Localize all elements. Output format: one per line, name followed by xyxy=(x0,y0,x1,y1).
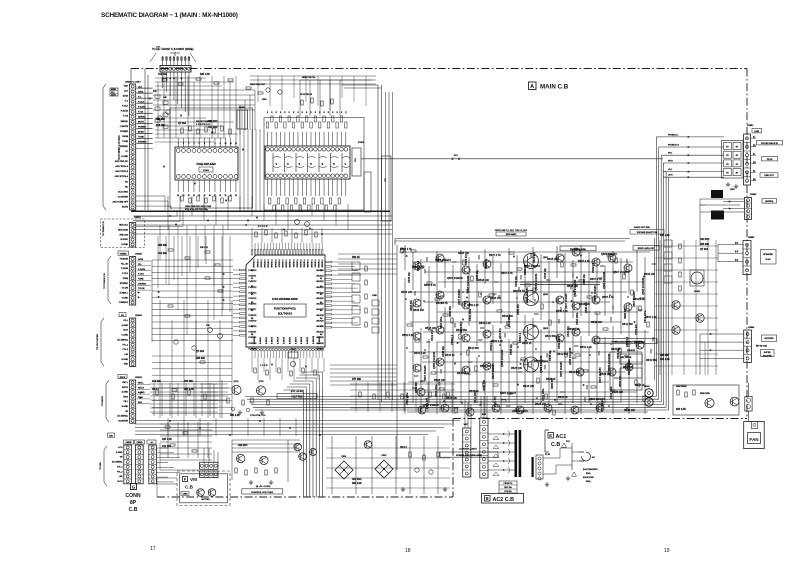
svg-text:P-SEG59: P-SEG59 xyxy=(321,260,323,268)
amp right boundary xyxy=(654,238,656,380)
svg-text:C521 47p: C521 47p xyxy=(465,254,468,265)
svg-text:CONTROL VOLT REG: CONTROL VOLT REG xyxy=(251,492,273,494)
svg-text:P-SEG44: P-SEG44 xyxy=(267,260,269,268)
svg-text:L/O-SERIAL: L/O-SERIAL xyxy=(117,415,129,418)
svg-text:FU2 16A: FU2 16A xyxy=(504,490,512,493)
svg-text:(25W AMP): (25W AMP) xyxy=(506,233,517,236)
components right of CONN strips xyxy=(165,426,170,428)
dashed box tuner gray xyxy=(101,219,145,248)
svg-text:R65 33K: R65 33K xyxy=(156,119,165,121)
svg-text:R518 100: R518 100 xyxy=(490,297,501,300)
transistor Q705 xyxy=(237,454,245,462)
AC2 fuse symbols xyxy=(496,436,499,440)
transistor Q706 xyxy=(260,456,268,464)
svg-text:D507 1SS133: D507 1SS133 xyxy=(424,365,427,381)
IC602 top pins xyxy=(266,148,270,152)
svg-text:R541 560: R541 560 xyxy=(634,341,645,344)
wires CN901 up xyxy=(464,400,466,428)
components below IC601 xyxy=(181,196,183,201)
svg-text:2SD2012: 2SD2012 xyxy=(627,350,635,352)
svg-text:18: 18 xyxy=(405,548,411,554)
wire cn607 feed xyxy=(174,52,176,56)
svg-text:+VE: +VE xyxy=(119,476,124,478)
svg-text:Q505 2SC2240: Q505 2SC2240 xyxy=(642,277,645,295)
svg-text:TUNER: TUNER xyxy=(120,253,127,255)
svg-text:R515 1K: R515 1K xyxy=(445,354,455,357)
bridge rectifier D902 xyxy=(375,460,393,478)
connector CN601 strip xyxy=(130,84,136,210)
transistor QA21 xyxy=(556,334,564,342)
svg-text:C521 47p: C521 47p xyxy=(533,252,536,263)
svg-text:FAN DRIVE: FAN DRIVE xyxy=(676,385,687,388)
svg-text:P-SEG47: P-SEG47 xyxy=(277,260,279,268)
lower mid wires xyxy=(350,383,455,385)
svg-text:AC2 C.B: AC2 C.B xyxy=(493,497,515,503)
svg-text:(SPKRS): (SPKRS) xyxy=(765,201,773,203)
transistor QA27 xyxy=(624,303,632,311)
svg-text:C P66 P12 D L2: C P66 P12 D L2 xyxy=(196,124,211,126)
label overload detector xyxy=(595,339,657,344)
amp area arrowheads xyxy=(406,255,408,257)
transistor QA19 xyxy=(556,296,564,304)
svg-text:C9 0.1: C9 0.1 xyxy=(152,389,159,391)
bus horizontal group to right xyxy=(245,396,656,398)
svg-text:P-KEY10: P-KEY10 xyxy=(249,270,257,272)
svg-text:Q507 2SA970: Q507 2SA970 xyxy=(601,253,617,256)
svg-text:C533 10p: C533 10p xyxy=(549,350,552,361)
svg-text:Q7 2SA: Q7 2SA xyxy=(196,350,205,353)
connector CN604 strip xyxy=(130,318,136,367)
transistor QA23 xyxy=(592,258,600,266)
svg-text:D507 1SS133: D507 1SS133 xyxy=(565,293,568,309)
svg-text:SEC 10A: SEC 10A xyxy=(504,486,512,489)
transistor Q707 xyxy=(294,443,302,451)
IC601 bottom pins xyxy=(176,175,180,179)
svg-text:R31 2.2K: R31 2.2K xyxy=(660,359,670,361)
svg-text:C509 0.1: C509 0.1 xyxy=(417,260,420,271)
gnd relay block xyxy=(727,182,729,184)
label MAIN mini table xyxy=(110,88,118,96)
svg-text:FTL-1: FTL-1 xyxy=(123,344,129,346)
svg-text:C852: C852 xyxy=(730,189,735,191)
svg-text:7: 7 xyxy=(209,143,210,145)
svg-text:R507 4.7K: R507 4.7K xyxy=(602,296,614,299)
svg-text:RED-SIG: RED-SIG xyxy=(120,234,129,236)
svg-text:P-SEG50: P-SEG50 xyxy=(288,260,290,268)
svg-text:NC: NC xyxy=(125,181,129,183)
svg-text:WOOFER: WOOFER xyxy=(763,355,773,357)
IC602 body xyxy=(265,146,350,179)
wires top area xyxy=(153,89,255,91)
svg-text:Q505 2SC2240: Q505 2SC2240 xyxy=(501,349,504,367)
svg-text:CONN: CONN xyxy=(125,493,141,499)
svg-text:R518 100: R518 100 xyxy=(401,291,412,294)
svg-text:C533 10p: C533 10p xyxy=(408,272,411,283)
svg-text:O22 2SC: O22 2SC xyxy=(208,127,218,129)
svg-text:P-KEY18: P-KEY18 xyxy=(249,315,257,317)
svg-text:C533 10p: C533 10p xyxy=(476,270,479,281)
svg-text:CD-R: CD-R xyxy=(123,330,129,332)
svg-text:R507 4.7K: R507 4.7K xyxy=(424,284,436,287)
svg-text:R518 100: R518 100 xyxy=(478,279,489,282)
fan drive components xyxy=(677,390,679,395)
svg-text:R507 4.7K: R507 4.7K xyxy=(578,260,590,263)
svg-text:P-KEY16: P-KEY16 xyxy=(249,304,257,306)
right mid components xyxy=(664,240,672,247)
svg-text:D507 1SS133: D507 1SS133 xyxy=(526,287,529,303)
svg-text:C512 100u: C512 100u xyxy=(435,384,438,397)
svg-text:FRONT C.B CN607 (WIRE): FRONT C.B CN607 (WIRE) xyxy=(162,47,194,51)
label CN609 CN610 headers xyxy=(124,440,134,444)
svg-text:4: 4 xyxy=(193,143,194,145)
svg-text:R515 1K: R515 1K xyxy=(522,342,532,345)
wires right of IC301 xyxy=(338,261,352,263)
svg-text:AIN-K20: AIN-K20 xyxy=(316,269,323,272)
svg-text:Q505 2SC2240: Q505 2SC2240 xyxy=(535,273,538,291)
components right2 of IC301 xyxy=(372,300,379,306)
svg-text:R518 100: R518 100 xyxy=(579,303,590,306)
svg-text:C509 0.1: C509 0.1 xyxy=(519,332,522,343)
svg-text:C.B: C.B xyxy=(185,485,194,490)
svg-text:R541 560: R541 560 xyxy=(456,329,467,332)
svg-text:16: 16 xyxy=(219,195,221,197)
svg-text:RED-DATA: RED-DATA xyxy=(118,228,129,231)
transistor QA33 xyxy=(418,406,426,414)
svg-text:(FTL +13.5V): (FTL +13.5V) xyxy=(291,391,304,393)
transistor QA29 xyxy=(625,363,633,371)
svg-text:R18 100: R18 100 xyxy=(156,125,165,127)
svg-text:AIN-K22: AIN-K22 xyxy=(316,280,323,283)
transistor QA40 xyxy=(596,404,604,412)
svg-text:P-CE: P-CE xyxy=(123,116,129,118)
svg-text:22: 22 xyxy=(188,195,190,197)
svg-text:P-KEY14: P-KEY14 xyxy=(249,292,257,294)
transistor QA4 xyxy=(413,364,421,372)
svg-text:CN621: CN621 xyxy=(134,217,142,219)
transistor QA31 xyxy=(608,368,616,376)
amp area vertical wires xyxy=(404,245,406,270)
svg-text:R523 10K: R523 10K xyxy=(458,252,469,255)
left area arrowheads xyxy=(149,98,151,100)
transistor QA17 xyxy=(556,254,564,262)
svg-text:(R): (R) xyxy=(753,162,756,164)
svg-text:(R): (R) xyxy=(753,145,756,147)
bus line heavy xyxy=(131,210,390,212)
wires amp to speakers xyxy=(699,199,701,246)
svg-text:JA501: JA501 xyxy=(644,385,651,388)
svg-text:C533 10p: C533 10p xyxy=(617,348,620,359)
svg-text:COUNTER: COUNTER xyxy=(118,196,129,198)
svg-text:A-GND: A-GND xyxy=(122,391,129,394)
svg-text:PLL-VD: PLL-VD xyxy=(121,263,129,265)
svg-text:R507 4.7K: R507 4.7K xyxy=(400,248,412,251)
svg-text:R31 2.2K: R31 2.2K xyxy=(352,483,362,485)
bus vertical group top bend xyxy=(302,389,304,391)
CN602 arrows xyxy=(140,392,142,394)
svg-text:C533 10p: C533 10p xyxy=(544,268,547,279)
svg-text:A: A xyxy=(530,84,534,90)
svg-text:P-KEY12: P-KEY12 xyxy=(249,281,257,283)
connector CN853 xyxy=(743,241,751,275)
svg-text:AKO RUBB OFF: AKO RUBB OFF xyxy=(113,200,129,203)
svg-text:Q507 2SA970: Q507 2SA970 xyxy=(613,271,629,274)
svg-text:24: 24 xyxy=(177,195,179,197)
amp area grounds xyxy=(402,251,407,253)
CN605 arrows xyxy=(138,291,140,293)
svg-text:CN30: CN30 xyxy=(183,494,188,496)
svg-text:R 6Ω: R 6Ω xyxy=(766,259,771,261)
svg-text:P-CLK: P-CLK xyxy=(122,106,129,108)
svg-text:Q507 2SA970: Q507 2SA970 xyxy=(423,404,439,407)
transistor QA38 xyxy=(544,404,552,412)
svg-text:R565 33K: R565 33K xyxy=(415,382,418,393)
AC2 winding wires xyxy=(488,433,515,435)
svg-text:R531 2.2K: R531 2.2K xyxy=(467,304,479,307)
narrow box right of IC602 xyxy=(382,156,392,221)
svg-text:C509 0.1: C509 0.1 xyxy=(558,338,561,349)
svg-text:C533 10p: C533 10p xyxy=(583,274,586,285)
IC602 circuit box xyxy=(264,118,364,211)
svg-text:R858 C858: R858 C858 xyxy=(700,393,710,395)
transistor QA10 xyxy=(462,301,470,309)
transistor QA24 xyxy=(592,296,600,304)
connector CN611 strip xyxy=(149,445,157,484)
svg-text:L-CH: L-CH xyxy=(118,447,123,449)
wires top-left mesh xyxy=(155,77,206,79)
label B AC2 C.B xyxy=(482,494,524,504)
svg-text:+VE: +VE xyxy=(124,354,129,356)
svg-text:P-SEG49: P-SEG49 xyxy=(285,260,287,268)
transistor Q708 xyxy=(299,453,307,461)
svg-text:P-SEG51: P-SEG51 xyxy=(292,260,294,268)
wire cn607 to strips xyxy=(130,69,132,85)
svg-text:AC1: AC1 xyxy=(556,434,567,440)
connector CN901 strip xyxy=(463,428,471,477)
svg-text:D-GND: D-GND xyxy=(121,359,128,361)
transistor QA11 xyxy=(462,334,470,342)
label SUPER WOOFER xyxy=(761,350,775,357)
svg-text:SUPER: SUPER xyxy=(764,352,771,354)
svg-text:C521 47p: C521 47p xyxy=(494,396,497,407)
wire fan xyxy=(747,411,749,422)
label E AC1 C.B xyxy=(544,430,546,452)
wires to CN853 xyxy=(718,244,743,246)
svg-text:R515 1K: R515 1K xyxy=(558,396,568,399)
connector CN621 strip xyxy=(130,223,136,248)
components below IC301 xyxy=(254,368,256,373)
connector CN towards VM 2 xyxy=(200,471,218,478)
svg-text:TO TUNER C.B: TO TUNER C.B xyxy=(103,221,105,236)
IC602 top resistor row xyxy=(266,122,268,128)
wire double feedback xyxy=(520,281,600,283)
svg-text:R515 1K: R515 1K xyxy=(457,372,467,375)
wires above IC602 xyxy=(299,80,301,116)
svg-text:P-SEG46: P-SEG46 xyxy=(274,260,276,268)
svg-text:R507 4.7K: R507 4.7K xyxy=(501,272,513,275)
svg-text:(B +5V +13.5V): (B +5V +13.5V) xyxy=(256,486,271,488)
transistor QA22 xyxy=(572,328,580,336)
svg-text:R531 2.2K: R531 2.2K xyxy=(645,316,657,319)
wires strip to IC301 xyxy=(152,259,233,261)
label WOOFER xyxy=(762,335,777,342)
svg-text:C509 0.1: C509 0.1 xyxy=(451,334,454,345)
svg-text:50Hz: 50Hz xyxy=(586,473,591,475)
svg-text:R541 560: R541 560 xyxy=(480,365,491,368)
svg-text:REL DRIVE: REL DRIVE xyxy=(621,357,633,359)
svg-text:P-KEY11: P-KEY11 xyxy=(249,276,257,278)
svg-text:C12 10u: C12 10u xyxy=(152,381,161,383)
svg-text:R4T 4.7K: R4T 4.7K xyxy=(184,388,194,391)
svg-text:Q7 2SA: Q7 2SA xyxy=(178,122,187,125)
top area components xyxy=(246,87,251,89)
svg-text:VDD: VDD xyxy=(124,364,129,366)
wire bundle x385-393 xyxy=(385,92,387,400)
svg-text:R523 10K: R523 10K xyxy=(535,403,546,406)
bracket TO TUNER C.B xyxy=(108,256,111,260)
AC2 table xyxy=(499,481,517,493)
svg-text:IC301 M34300M4-608SP: IC301 M34300M4-608SP xyxy=(272,299,298,301)
svg-text:R4T 4.7K: R4T 4.7K xyxy=(162,438,172,441)
svg-text:AIN-K29: AIN-K29 xyxy=(316,319,323,322)
svg-text:NOTE CN6 7.1, 21.5, 7.5K 7.9,: NOTE CN6 7.1, 21.5, 7.5K 7.9, 27A xyxy=(495,229,527,232)
svg-text:VDD: VDD xyxy=(124,86,129,88)
svg-text:PB RECU L: PB RECU L xyxy=(668,134,679,136)
svg-text:TO DIN: TO DIN xyxy=(100,462,102,470)
cluster left of IC601 xyxy=(155,95,160,98)
headphone jack xyxy=(645,389,653,397)
svg-text:C521 47p: C521 47p xyxy=(499,328,502,339)
bridge rectifier D901 xyxy=(335,461,353,479)
svg-text:3: 3 xyxy=(188,143,189,145)
svg-text:C12 10u: C12 10u xyxy=(158,74,167,76)
transistor Q554 xyxy=(524,357,539,372)
svg-text:R541 560: R541 560 xyxy=(545,335,556,338)
svg-text:P-KEY17: P-KEY17 xyxy=(249,309,257,311)
transistor QA35 xyxy=(466,408,474,416)
IC601 circuit box xyxy=(170,108,253,208)
label SPEAKERS xyxy=(762,199,777,204)
svg-text:NC: NC xyxy=(125,186,129,188)
svg-text:R531 2.2K: R531 2.2K xyxy=(580,346,592,349)
svg-text:C712: C712 xyxy=(420,381,425,383)
svg-text:RY501: RY501 xyxy=(694,291,701,293)
wires control reg xyxy=(232,439,300,441)
svg-text:C533 10p: C533 10p xyxy=(515,276,518,287)
svg-text:2: 2 xyxy=(183,143,184,145)
transistor QA34 xyxy=(441,404,449,412)
svg-text:O22 2SC: O22 2SC xyxy=(700,239,710,241)
svg-text:A-GND: A-GND xyxy=(122,324,129,327)
transistor QA25 xyxy=(608,254,616,262)
connector CN towards VM 1 xyxy=(200,462,218,469)
svg-text:POWER AMP (25W+25W): POWER AMP (25W+25W) xyxy=(456,454,482,457)
CN851 pin wires xyxy=(751,137,757,139)
svg-text:D507 1SS133: D507 1SS133 xyxy=(458,289,461,305)
IC301 top pins xyxy=(251,250,253,256)
resistor array RA601 xyxy=(237,110,248,129)
label PB RECU/AUX IN xyxy=(757,141,783,145)
svg-text:R515 1K: R515 1K xyxy=(635,384,645,387)
wires between ICs xyxy=(239,129,241,211)
svg-text:P-SEG48: P-SEG48 xyxy=(281,260,283,268)
svg-text:RET-R: RET-R xyxy=(122,387,129,389)
svg-text:MAIN C.B: MAIN C.B xyxy=(540,84,569,91)
svg-text:AIN-K24: AIN-K24 xyxy=(316,291,323,294)
svg-text:(L1): (L1) xyxy=(735,251,739,253)
transistor QA9 xyxy=(462,266,470,274)
connector CN605 strip xyxy=(130,257,136,306)
svg-text:RED-CLK: RED-CLK xyxy=(119,225,128,227)
svg-text:11: 11 xyxy=(230,143,232,145)
svg-text:P-CLK: P-CLK xyxy=(122,273,129,275)
svg-text:CN602: CN602 xyxy=(135,377,143,379)
label phones xyxy=(560,246,596,251)
main C.B boundary top xyxy=(131,68,747,70)
svg-text:P-SEG41: P-SEG41 xyxy=(256,260,258,268)
transistor QA7 xyxy=(436,326,444,334)
svg-text:AC: AC xyxy=(592,456,595,459)
transistor Q701 xyxy=(232,385,241,394)
bus vertical group to AC area xyxy=(302,390,304,497)
svg-text:C509 0.1: C509 0.1 xyxy=(490,340,493,351)
svg-text:DATA: DATA xyxy=(123,95,129,98)
right mid wires xyxy=(655,245,718,247)
transistor QA15 xyxy=(483,330,491,338)
svg-text:TO B FRONT C.B CN13: TO B FRONT C.B CN13 xyxy=(119,135,121,161)
svg-text:BRN: BRN xyxy=(482,414,487,416)
transistor QA26 xyxy=(624,264,632,272)
svg-text:8: 8 xyxy=(214,143,215,145)
svg-text:R518 100: R518 100 xyxy=(425,327,436,330)
IC602 bottom pins xyxy=(266,174,270,178)
svg-text:R507 4.7K: R507 4.7K xyxy=(590,278,602,281)
svg-text:AIN-K26: AIN-K26 xyxy=(316,303,323,306)
components right of IC301 xyxy=(352,262,360,270)
svg-text:C521 47p: C521 47p xyxy=(601,400,604,411)
svg-text:LCH/ RCH +-28.5V: LCH/ RCH +-28.5V xyxy=(459,449,477,451)
transistor Q851 xyxy=(705,398,714,407)
wires mid-left lower horizontals xyxy=(152,355,232,357)
cluster above IC601 xyxy=(181,128,183,133)
svg-text:WOOFER: WOOFER xyxy=(765,338,775,340)
svg-text:10: 10 xyxy=(224,143,226,145)
svg-text:RET-L: RET-L xyxy=(122,382,129,384)
svg-text:CN853: CN853 xyxy=(748,237,755,239)
svg-text:R565 33K: R565 33K xyxy=(483,380,486,391)
transistor QA16 xyxy=(483,362,491,370)
svg-text:Q505 2SC2240: Q505 2SC2240 xyxy=(603,271,606,289)
svg-text:FTL-1: FTL-1 xyxy=(117,466,123,468)
svg-text:P-SEG42: P-SEG42 xyxy=(259,260,261,268)
svg-text:AIN-K28: AIN-K28 xyxy=(316,314,323,317)
svg-text:TONE/ AMPLIFIER: TONE/ AMPLIFIER xyxy=(196,163,216,166)
svg-text:MUTE: MUTE xyxy=(122,206,129,208)
svg-text:12: 12 xyxy=(235,143,237,145)
svg-text:R52 1K: R52 1K xyxy=(352,257,360,259)
transistor QA32 xyxy=(576,368,584,376)
transistor QA5 xyxy=(436,254,444,262)
wires above IC301 xyxy=(251,228,253,243)
svg-text:R4T 4.7K: R4T 4.7K xyxy=(200,73,210,76)
svg-text:P-SEG43: P-SEG43 xyxy=(263,260,265,268)
svg-text:G: G xyxy=(132,484,136,489)
narrow box2 right of IC602 xyxy=(364,172,371,212)
svg-text:TUNER-L: TUNER-L xyxy=(119,292,129,294)
transistor Q553 xyxy=(524,325,539,340)
svg-text:B-SEG0: B-SEG0 xyxy=(254,337,256,344)
label CD xyxy=(119,313,126,317)
main C.B boundary right xyxy=(746,69,748,419)
